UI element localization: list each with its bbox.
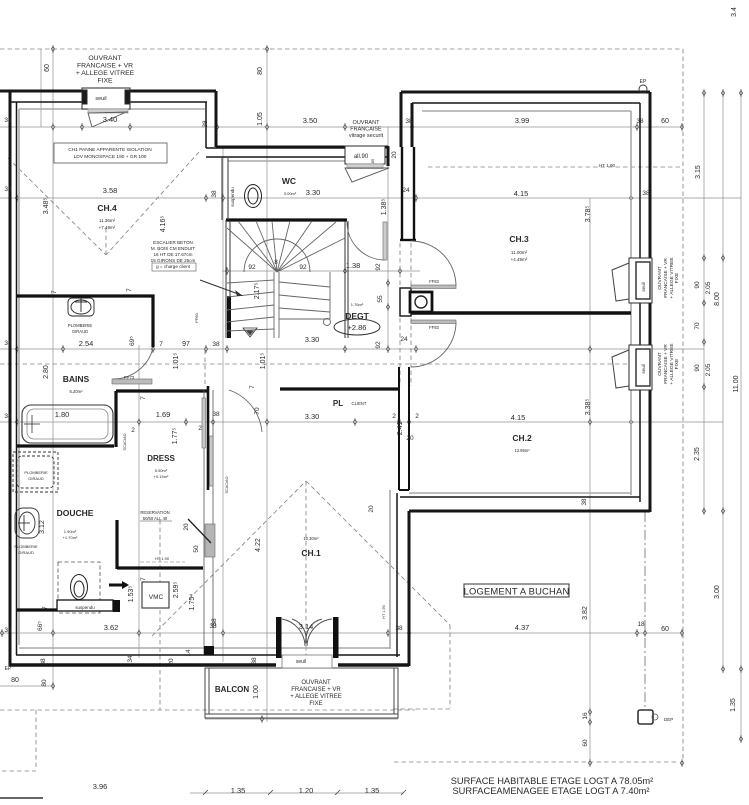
svg-text:DOUCHE: DOUCHE: [57, 508, 94, 518]
svg-text:38: 38: [4, 340, 12, 347]
svg-text:seuil: seuil: [641, 364, 646, 373]
wall WC suspendu ledge: [57, 600, 113, 611]
wire bottom dim line y793: [190, 792, 404, 794]
window shutter flap WC: [345, 168, 389, 182]
wall inner gray top-right: [422, 110, 631, 112]
svg-text:vitrage securit: vitrage securit: [349, 133, 384, 139]
svg-text:20: 20: [406, 435, 414, 442]
svg-text:1.75⁴: 1.75⁴: [189, 594, 196, 611]
window seuil top-left: [82, 88, 130, 113]
wall inner line WC top: [206, 156, 388, 158]
svg-text:3.30: 3.30: [306, 188, 321, 197]
svg-text:1.35: 1.35: [730, 698, 737, 712]
wire overhang horizontal y709: [393, 708, 450, 710]
svg-text:suspendu: suspendu: [75, 605, 95, 610]
svg-text:15 GIRONS DE 25cm: 15 GIRONS DE 25cm: [151, 258, 196, 263]
svg-text:38: 38: [212, 341, 220, 348]
wall closet black block bottom: [204, 646, 214, 655]
svg-text:PLOMBERIE: PLOMBERIE: [24, 470, 48, 475]
svg-text:24: 24: [402, 187, 410, 194]
door DEGT arc: [347, 222, 385, 260]
wall douche south right stub: [113, 600, 120, 612]
svg-text:60: 60: [44, 64, 51, 72]
wall inner gray left: [18, 109, 20, 645]
svg-text:55: 55: [377, 295, 384, 303]
svg-text:3.62: 3.62: [104, 623, 119, 632]
svg-text:GIRAUD: GIRAUD: [28, 476, 44, 481]
wire vertical dim line x41: [40, 49, 42, 127]
svg-text:SURFACE HABITABLE ETAGE LOGT A: SURFACE HABITABLE ETAGE LOGT A 78.05m²: [451, 776, 654, 786]
wire vertical dim line x53: [52, 49, 54, 686]
wire horizontal dim line y686: [0, 685, 53, 687]
svg-text:HT 1.90: HT 1.90: [382, 605, 386, 618]
svg-text:CH.4: CH.4: [97, 203, 117, 213]
svg-text:3.30: 3.30: [305, 335, 320, 344]
svg-text:suspendu: suspendu: [230, 187, 235, 207]
svg-text:90: 90: [694, 281, 701, 289]
DEP square bottom: [638, 710, 653, 724]
svg-text:4.15: 4.15: [514, 189, 529, 198]
wire roof ridge CH.4 vertical: [105, 228, 107, 258]
svg-text:2: 2: [392, 413, 396, 420]
wall CH.2 west: [399, 367, 409, 490]
window shutter CH.2: [612, 350, 629, 388]
svg-text:3.58: 3.58: [103, 186, 118, 195]
wall CH1 right outer: [408, 511, 411, 666]
svg-text:38: 38: [211, 190, 218, 198]
svg-text:80: 80: [257, 67, 264, 75]
svg-text:1.38⁵: 1.38⁵: [381, 199, 388, 216]
node markers y349: [15, 345, 18, 353]
svg-text:5.50m²: 5.50m²: [155, 468, 168, 473]
svg-text:1.76m²: 1.76m²: [351, 302, 364, 307]
svg-text:FRANCAISE + VR: FRANCAISE + VR: [663, 344, 669, 384]
svg-text:20: 20: [391, 151, 398, 159]
svg-text:+0.15m²: +0.15m²: [154, 474, 169, 479]
svg-text:1.35: 1.35: [231, 786, 246, 795]
wire dashed balcony level y710: [0, 709, 415, 711]
wall outer top-right: [401, 91, 650, 94]
stair arc: [244, 239, 310, 272]
svg-text:3.14: 3.14: [299, 622, 314, 631]
wall tub right: [114, 391, 117, 447]
node bottom ticks: [203, 790, 406, 795]
svg-text:1.90m²: 1.90m²: [64, 529, 77, 534]
svg-text:70: 70: [694, 322, 701, 330]
stair down arrow: [243, 328, 257, 337]
svg-text:OUVRANT: OUVRANT: [301, 680, 331, 686]
node markers top dashed: [51, 45, 54, 53]
svg-text:4.22: 4.22: [255, 538, 262, 552]
wire dashed left bottom x36: [35, 710, 37, 770]
svg-text:2.35: 2.35: [694, 447, 701, 461]
wire bottom dashed boundary y762: [394, 761, 678, 763]
reservation pointer: [188, 519, 211, 543]
wire overhang vertical x450: [449, 625, 451, 708]
svg-text:3.82: 3.82: [582, 606, 589, 620]
wall outer top-left: [0, 90, 216, 93]
svg-text:38: 38: [582, 498, 588, 505]
wire vertical dim line x590: [589, 198, 591, 763]
wire vertical dim line x223: [222, 146, 224, 662]
svg-text:60: 60: [661, 626, 669, 633]
svg-text:PLOMBERIE: PLOMBERIE: [14, 544, 38, 549]
reservation gray block: [205, 524, 215, 557]
svg-text:RESERVATION: RESERVATION: [140, 510, 169, 515]
svg-text:3.40: 3.40: [103, 115, 118, 124]
window CH.2 right: [629, 345, 652, 390]
svg-text:3.4: 3.4: [731, 7, 738, 17]
svg-text:+7.49m²: +7.49m²: [99, 225, 116, 230]
svg-text:14: 14: [185, 649, 192, 657]
svg-text:+2.86: +2.86: [348, 323, 367, 332]
svg-text:7: 7: [51, 290, 58, 294]
wall inner line right: [639, 103, 641, 502]
wire horizontal dim line y198: [0, 197, 741, 199]
wall jog x401: [400, 92, 403, 147]
svg-text:38: 38: [4, 186, 12, 193]
svg-text:2.59⁵: 2.59⁵: [173, 582, 180, 599]
wire vertical dim line x741: [740, 92, 742, 740]
svg-text:38: 38: [405, 118, 413, 125]
svg-text:1.80: 1.80: [55, 410, 70, 419]
wall inner line top-left: [10, 101, 207, 103]
svg-text:PLOMBERIE: PLOMBERIE: [68, 323, 93, 328]
wire bottom-left stub: [0, 797, 43, 799]
wall step inner x206: [205, 102, 207, 148]
svg-text:DRESS: DRESS: [147, 454, 175, 463]
svg-text:FRANCAISE + VR: FRANCAISE + VR: [663, 258, 669, 298]
label ouvrant window1 rot: [657, 257, 680, 384]
wire dashed corridor x411: [410, 243, 412, 386]
wall VMC west: [115, 520, 118, 569]
wall inner line left: [16, 102, 18, 655]
sliding door leaf a: [202, 398, 206, 448]
wire dash-dot axis x645: [644, 512, 646, 710]
svg-text:FF83: FF83: [429, 325, 439, 330]
svg-text:3.00: 3.00: [714, 585, 721, 599]
svg-text:38: 38: [4, 627, 12, 634]
svg-text:60: 60: [661, 118, 669, 125]
svg-text:50: 50: [193, 545, 200, 553]
sink bains: [68, 298, 94, 316]
svg-text:LDV MONOSPACE 190 + GR 100: LDV MONOSPACE 190 + GR 100: [74, 154, 147, 160]
door PP73 leaf: [112, 379, 152, 384]
svg-text:10.30m²: 10.30m²: [303, 536, 319, 541]
node markers y633: [0, 629, 3, 637]
wire roof ridge CH.1 vertical: [305, 481, 307, 657]
door FF83 CH.3 arc: [411, 241, 456, 286]
svg-text:38: 38: [642, 190, 650, 197]
radiator duct: [410, 292, 432, 312]
svg-text:1.20: 1.20: [299, 786, 314, 795]
seuil strip balcony door: [282, 655, 332, 668]
svg-text:DEP: DEP: [664, 717, 673, 722]
svg-text:3.99: 3.99: [515, 116, 530, 125]
wall inner gray CH1 right: [389, 490, 391, 649]
svg-text:60: 60: [582, 739, 589, 747]
svg-text:1.77⁵: 1.77⁵: [172, 428, 179, 445]
balcony door post right: [333, 617, 339, 658]
wall inner line top-right: [412, 102, 640, 104]
window CH.3 right: [629, 258, 652, 303]
svg-text:2.41⁵: 2.41⁵: [397, 419, 404, 436]
wall stair east: [344, 221, 346, 338]
wire horizontal dim line y422: [0, 421, 723, 423]
douche entry arrow: [109, 581, 129, 589]
svg-text:90: 90: [694, 364, 701, 372]
svg-text:3.50: 3.50: [303, 116, 318, 125]
wall WC top: [216, 146, 388, 166]
svg-text:7: 7: [159, 341, 163, 348]
svg-text:50/50 ALL 40: 50/50 ALL 40: [143, 516, 168, 521]
svg-text:2.05: 2.05: [705, 281, 712, 294]
wall below bathtub: [17, 444, 114, 447]
svg-text:4.16⁵: 4.16⁵: [160, 216, 167, 233]
svg-text:FRANCAISE + VR: FRANCAISE + VR: [77, 63, 133, 70]
node markers y422: [15, 418, 18, 426]
svg-text:2: 2: [415, 413, 419, 420]
svg-text:FIXE: FIXE: [309, 701, 322, 707]
wall VMC north: [117, 566, 203, 569]
svg-text:92: 92: [375, 263, 382, 271]
svg-text:38: 38: [4, 413, 12, 420]
svg-text:80: 80: [11, 677, 19, 684]
svg-text:SCACIAO: SCACIAO: [123, 433, 127, 450]
svg-text:11.36m²: 11.36m²: [99, 218, 116, 223]
svg-text:VMC: VMC: [149, 594, 164, 601]
window shutter CH.3: [612, 263, 629, 301]
wire vertical dim line x723: [722, 92, 724, 670]
svg-text:2: 2: [131, 427, 135, 434]
wall inner gray WC top: [228, 160, 385, 162]
stair fan lines: [227, 221, 345, 272]
svg-text:2.54: 2.54: [79, 339, 94, 348]
isolation note box: [54, 143, 167, 163]
french door balcony arcs: [282, 619, 332, 646]
wall step x216: [215, 91, 218, 147]
svg-text:69⁵: 69⁵: [129, 336, 136, 346]
svg-text:1.01⁵: 1.01⁵: [173, 353, 180, 370]
svg-text:3.48⁵: 3.48⁵: [43, 198, 50, 215]
svg-text:OUVRANT: OUVRANT: [657, 266, 663, 290]
svg-text:11.00m²: 11.00m²: [511, 250, 528, 255]
svg-text:1.69: 1.69: [156, 410, 171, 419]
node markers y127: [80, 123, 83, 131]
wall inner gray top-left: [19, 108, 205, 110]
svg-text:11.00: 11.00: [733, 375, 740, 392]
wall inner gray bottom: [19, 647, 390, 649]
svg-text:seuil: seuil: [296, 659, 306, 665]
sliding door leaf b: [210, 436, 214, 486]
door DEGT leaf: [383, 222, 387, 260]
svg-text:GIRAUD: GIRAUD: [18, 550, 34, 555]
wire balcony bottom dim y719: [205, 718, 398, 720]
svg-text:6.20m²: 6.20m²: [69, 389, 83, 394]
svg-text:FIXE: FIXE: [674, 359, 680, 370]
wire top dashed boundary y49: [0, 48, 683, 50]
svg-text:BALCON: BALCON: [215, 685, 249, 694]
wire roof ridge CH.1 left: [152, 481, 306, 636]
wall inner line bottom: [16, 654, 400, 656]
toilet dashed enclosure: [58, 562, 100, 613]
wall outer right: [649, 92, 652, 512]
svg-text:4.37: 4.37: [515, 623, 530, 632]
wall douche south: [17, 608, 57, 611]
svg-text:2.05: 2.05: [705, 363, 712, 376]
svg-text:3.96: 3.96: [93, 782, 108, 791]
washing machine dashed: [13, 452, 58, 492]
wall CH.3 / CH.2 divider: [411, 311, 631, 314]
svg-text:ESCALIER BETON: ESCALIER BETON: [153, 240, 193, 245]
wire right dashed boundary x683: [682, 49, 684, 763]
node markers y271: [225, 267, 228, 275]
svg-text:CH.2: CH.2: [512, 433, 532, 443]
svg-text:38: 38: [4, 117, 12, 124]
svg-text:92: 92: [299, 264, 307, 271]
wire vertical dim line x139: [138, 345, 140, 658]
svg-text:SCACIAO: SCACIAO: [225, 476, 229, 493]
svg-text:GIRAUD: GIRAUD: [72, 329, 88, 334]
wall inner line bottom-right: [400, 496, 640, 498]
wall stair west: [222, 158, 348, 338]
svg-text:16: 16: [582, 712, 589, 720]
svg-text:38: 38: [202, 120, 209, 128]
toilet WC top: [245, 185, 262, 208]
stair treads left: [227, 280, 274, 331]
svg-text:2.17⁵: 2.17⁵: [254, 283, 261, 300]
svg-text:7: 7: [126, 288, 133, 292]
wire dashed line y364: [0, 363, 645, 365]
svg-text:7: 7: [42, 606, 49, 610]
svg-text:16 HT DE 17.67cm: 16 HT DE 17.67cm: [154, 252, 193, 257]
svg-text:7: 7: [140, 577, 147, 581]
stair spine: [273, 272, 275, 338]
svg-text:20: 20: [368, 505, 375, 513]
lavabo douche: [15, 508, 39, 538]
svg-text:OUVRANT: OUVRANT: [657, 352, 663, 376]
svg-text:38: 38: [395, 625, 403, 632]
wire vertical dim line x267: [266, 49, 268, 722]
svg-text:13.95m²: 13.95m²: [514, 448, 530, 453]
svg-text:all.90: all.90: [354, 154, 369, 160]
svg-text:66⁵: 66⁵: [37, 621, 44, 631]
wire horizontal dim line y127: [0, 126, 683, 128]
svg-text:1.01⁵: 1.01⁵: [260, 353, 267, 370]
svg-text:24: 24: [400, 336, 408, 343]
svg-text:seuil: seuil: [95, 96, 106, 102]
svg-text:97: 97: [182, 341, 190, 348]
door FF83 CH.2 leaf: [411, 320, 456, 324]
svg-text:7: 7: [140, 396, 147, 400]
wall inner gray bottom-right: [409, 492, 631, 494]
svg-text:OUVRANT: OUVRANT: [88, 55, 121, 62]
window shutter flap top-left: [88, 112, 128, 127]
svg-text:PP73: PP73: [124, 375, 135, 380]
svg-text:1.53⁵: 1.53⁵: [128, 586, 135, 603]
svg-text:2: 2: [198, 425, 202, 432]
svg-text:CH1 PANNE APPARENTE ISOLATION: CH1 PANNE APPARENTE ISOLATION: [68, 147, 152, 153]
toilet douche: [71, 575, 88, 600]
node markers y198: [15, 194, 18, 202]
svg-text:+ ALLEGE VITREE: + ALLEGE VITREE: [290, 694, 342, 700]
svg-text:PL: PL: [333, 399, 343, 408]
svg-text:FIXE: FIXE: [97, 78, 113, 85]
door FF83 CH.3 leaf: [411, 285, 456, 289]
svg-text:EP: EP: [5, 666, 12, 672]
wall outer bottom: [9, 663, 409, 666]
node markers right top: [702, 89, 705, 97]
svg-text:18: 18: [637, 621, 645, 628]
EP circle top right: [639, 85, 647, 93]
wire dashed corridor x400: [399, 243, 401, 386]
svg-text:3.38⁵: 3.38⁵: [585, 399, 592, 416]
svg-text:1.35: 1.35: [365, 786, 380, 795]
wall stairwell top: [226, 218, 347, 221]
stair circle marker: [324, 319, 331, 326]
svg-text:38: 38: [636, 118, 644, 125]
wire roof ridge CH.4 left: [8, 158, 106, 255]
wire horizontal dim line y633: [0, 632, 682, 634]
svg-text:CH.3: CH.3: [509, 234, 529, 244]
svg-text:1.05: 1.05: [257, 112, 264, 126]
wall inner line CH1 right: [396, 493, 398, 657]
svg-text:80: 80: [41, 679, 48, 687]
wire roof ridge CH.1 right: [306, 481, 450, 625]
svg-text:70: 70: [254, 407, 261, 415]
svg-text:20: 20: [168, 658, 175, 666]
svg-text:+4.49m²: +4.49m²: [511, 257, 528, 262]
node markers misc: [51, 682, 54, 690]
svg-text:SURFACEAMENAGEE ETAGE LOGT A 7: SURFACEAMENAGEE ETAGE LOGT A 7.40m²: [452, 786, 649, 796]
svg-text:CLIENT: CLIENT: [352, 401, 367, 406]
svg-text:HT 1.90: HT 1.90: [155, 556, 170, 561]
svg-text:2.80: 2.80: [43, 365, 50, 379]
svg-text:seuil: seuil: [641, 282, 646, 291]
svg-text:CH.1: CH.1: [301, 548, 321, 558]
balcony door post left: [276, 617, 282, 658]
wire dashed left bottom y771: [2, 770, 36, 772]
svg-text:4.15: 4.15: [511, 413, 526, 422]
door PP73 BAINS arc: [113, 348, 153, 379]
escalier note: [151, 240, 196, 269]
svg-text:FF83: FF83: [429, 279, 439, 284]
wall inner line y146 left part: [206, 147, 345, 149]
wall jog x412: [411, 103, 414, 147]
wall CH.4 / BAINS divider: [17, 296, 153, 347]
svg-text:HT 1.90: HT 1.90: [599, 163, 615, 168]
svg-text:+1.70m²: +1.70m²: [63, 535, 78, 540]
balcony outline: [205, 668, 398, 718]
wall inner gray right: [630, 111, 632, 495]
svg-text:85: 85: [370, 158, 375, 163]
svg-text:OUVRANT: OUVRANT: [353, 120, 381, 126]
svg-text:34: 34: [127, 655, 134, 663]
svg-text:38: 38: [251, 657, 258, 665]
svg-text:1.00: 1.00: [253, 685, 260, 699]
stair inner box: [279, 272, 330, 319]
wall outer left: [9, 91, 12, 666]
bathtub: [22, 405, 113, 443]
VMC box: [142, 582, 169, 608]
svg-text:38: 38: [212, 411, 220, 418]
wire vertical dim line x388: [387, 127, 389, 350]
svg-text:3.12: 3.12: [39, 520, 46, 534]
door hall arc: [229, 390, 262, 432]
wire vertical dim line x704: [703, 92, 705, 513]
wall closet east x208: [207, 386, 210, 490]
svg-text:7: 7: [249, 385, 256, 389]
